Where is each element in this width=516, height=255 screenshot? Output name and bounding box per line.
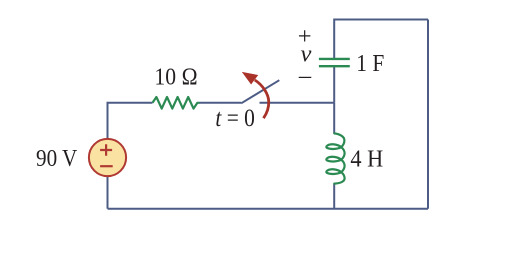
- switch actuation arrow (red arc): [255, 80, 269, 118]
- wire: junction down to inductor top: [333, 103, 335, 134]
- arrowhead: [242, 72, 258, 85]
- svg-text:10 Ω: 10 Ω: [154, 63, 198, 90]
- resistor R 10ohm zigzag: [153, 97, 200, 109]
- svg-text:4 H: 4 H: [350, 145, 383, 172]
- svg-text:t = 0: t = 0: [215, 103, 255, 132]
- wire: switch right contact to junction node: [260, 102, 335, 104]
- inductor L 4H coil: [326, 133, 344, 183]
- wire: right side down: [427, 20, 429, 209]
- wire: bottom rail: [108, 208, 429, 210]
- svg-text:–: –: [298, 62, 312, 89]
- capacitor C 1F plates: [319, 58, 350, 60]
- wire: capacitor top plate up and top rail right: [334, 20, 428, 59]
- wire: junction up to capacitor bottom plate: [333, 66, 335, 103]
- wire: top rail left (source to resistor): [108, 103, 153, 139]
- wire: source bottom to bottom rail: [107, 176, 109, 208]
- switch blade (open, t=0): [241, 80, 279, 103]
- source minus sign: [100, 165, 113, 167]
- wire: inductor bottom to bottom rail: [333, 184, 335, 209]
- wire: resistor right terminal to switch pivot: [200, 102, 242, 104]
- voltage source V1 90V circle: [89, 139, 126, 176]
- svg-text:90 V: 90 V: [36, 145, 78, 172]
- svg-text:1 F: 1 F: [356, 50, 384, 77]
- source plus sign: [100, 144, 112, 155]
